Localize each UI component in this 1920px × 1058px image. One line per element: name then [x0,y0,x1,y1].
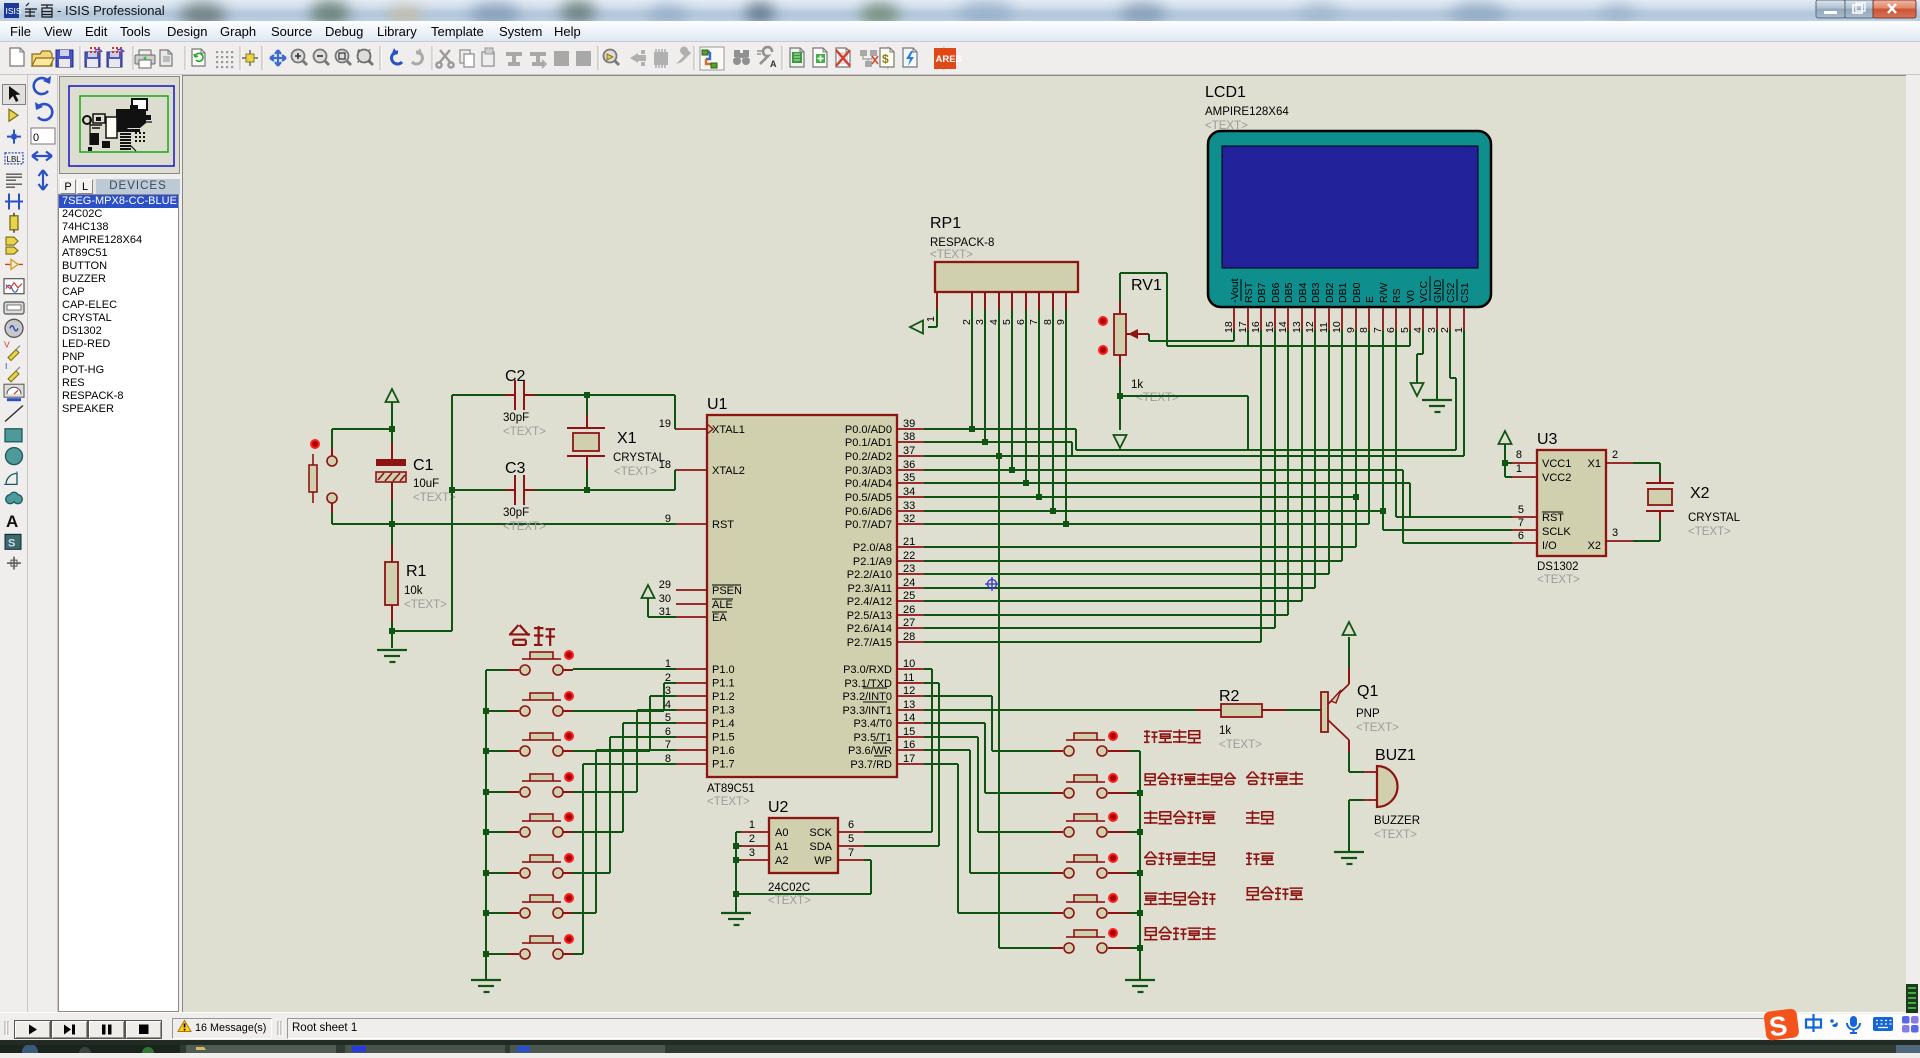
svg-text:<TEXT>: <TEXT> [1219,739,1262,751]
svg-text:SCK: SCK [809,827,832,839]
svg-text:P3.7/RD: P3.7/RD [850,759,892,771]
svg-text:1: 1 [749,819,755,831]
svg-text:U3: U3 [1537,431,1558,448]
svg-text:12: 12 [903,685,915,697]
svg-text:<TEXT>: <TEXT> [768,895,811,907]
svg-text:WP: WP [814,855,832,867]
svg-text:24: 24 [903,577,915,589]
svg-text:7: 7 [848,847,854,859]
svg-text:10: 10 [903,658,915,670]
svg-text:P1.7: P1.7 [712,759,735,771]
svg-text:30pF: 30pF [503,412,529,424]
svg-text:5: 5 [1001,319,1013,325]
svg-text:LCD1: LCD1 [1205,84,1246,101]
svg-text:C3: C3 [505,460,526,477]
svg-text:P0.5/AD5: P0.5/AD5 [845,492,892,504]
svg-text:P3.6/WR: P3.6/WR [848,745,892,757]
svg-text:33: 33 [903,500,915,512]
svg-text:DB6: DB6 [1270,282,1282,303]
svg-text:<TEXT>: <TEXT> [1136,392,1179,404]
svg-text:R2: R2 [1219,688,1240,705]
svg-text:<TEXT>: <TEXT> [1537,574,1580,586]
svg-text:28: 28 [903,631,915,643]
svg-text:6: 6 [1015,319,1027,325]
svg-text:6: 6 [848,819,854,831]
svg-text:P1.5: P1.5 [712,732,735,744]
svg-text:<TEXT>: <TEXT> [1688,526,1731,538]
svg-text:21: 21 [903,536,915,548]
svg-text:P2.3/A11: P2.3/A11 [848,583,892,595]
svg-text:RV1: RV1 [1131,277,1162,294]
svg-text:XTAL1: XTAL1 [712,424,745,436]
svg-text:P0.2/AD2: P0.2/AD2 [845,451,892,463]
svg-text:EA: EA [712,612,727,624]
svg-text:22: 22 [903,550,915,562]
svg-text:A2: A2 [775,855,788,867]
svg-text:27: 27 [903,617,915,629]
svg-text:4: 4 [988,319,1000,325]
svg-text:P0.6/AD6: P0.6/AD6 [845,506,892,518]
svg-text:P0.3/AD3: P0.3/AD3 [845,465,892,477]
svg-text:VCC2: VCC2 [1542,472,1571,484]
svg-text:-Vout: -Vout [1229,278,1241,303]
svg-text:2: 2 [961,319,973,325]
svg-text:9: 9 [1055,319,1067,325]
svg-text:30pF: 30pF [503,507,529,519]
svg-text:DB0: DB0 [1351,282,1363,303]
svg-text:2: 2 [1612,449,1618,461]
svg-text:CS1: CS1 [1459,282,1471,303]
svg-text:DB2: DB2 [1324,282,1336,303]
svg-text:P0.4/AD4: P0.4/AD4 [845,478,892,490]
svg-text:5: 5 [1518,504,1524,516]
svg-text:P3.0/RXD: P3.0/RXD [843,664,892,676]
svg-text:U1: U1 [707,396,728,413]
svg-text:P2.5/A13: P2.5/A13 [847,610,892,622]
svg-text:P1.2: P1.2 [712,691,735,703]
svg-text:R/W: R/W [1378,283,1390,304]
svg-text:DB5: DB5 [1283,282,1295,303]
svg-text:ALE: ALE [712,599,733,611]
svg-text:AMPIRE128X64: AMPIRE128X64 [1205,106,1289,118]
svg-text:24C02C: 24C02C [768,882,810,894]
svg-text:3: 3 [974,319,986,325]
svg-text:<TEXT>: <TEXT> [503,521,546,533]
svg-text:P2.4/A12: P2.4/A12 [847,596,892,608]
svg-text:39: 39 [903,418,915,430]
svg-text:X1: X1 [617,430,637,447]
svg-text:<TEXT>: <TEXT> [930,249,973,261]
svg-text:RST: RST [712,519,734,531]
svg-text:P1.4: P1.4 [712,718,735,730]
svg-text:P3.5/T1: P3.5/T1 [853,732,892,744]
svg-text:X2: X2 [1690,485,1710,502]
svg-text:VCC1: VCC1 [1542,458,1571,470]
svg-text:38: 38 [903,431,915,443]
svg-text:S: S [1767,1010,1789,1042]
svg-text:A1: A1 [775,841,788,853]
svg-text:Q1: Q1 [1357,683,1378,700]
svg-text:P3.2/INT0: P3.2/INT0 [842,691,892,703]
svg-text:DB3: DB3 [1310,282,1322,303]
svg-text:<TEXT>: <TEXT> [614,466,657,478]
svg-text:P2.1/A9: P2.1/A9 [853,556,892,568]
svg-text:7: 7 [1028,319,1040,325]
svg-text:C1: C1 [413,457,434,474]
svg-text:CS2: CS2 [1445,282,1457,303]
svg-text:RS: RS [1391,288,1403,303]
svg-text:PNP: PNP [1356,708,1380,720]
svg-text:DB1: DB1 [1337,282,1349,303]
svg-text:DB4: DB4 [1297,282,1309,303]
svg-text:16: 16 [903,739,915,751]
svg-text:36: 36 [903,459,915,471]
svg-text:X1: X1 [1588,458,1601,470]
svg-text:10k: 10k [404,585,423,597]
svg-text:26: 26 [903,604,915,616]
svg-text:RST: RST [1542,512,1564,524]
svg-text:P1.3: P1.3 [712,705,735,717]
svg-text:35: 35 [903,472,915,484]
svg-text:7: 7 [1518,517,1524,529]
svg-text:R1: R1 [406,563,427,580]
svg-text:17: 17 [903,753,915,765]
svg-text:P0.1/AD1: P0.1/AD1 [845,437,892,449]
svg-text:25: 25 [903,590,915,602]
svg-text:P2.7/A15: P2.7/A15 [847,637,892,649]
svg-text:DB7: DB7 [1256,282,1268,303]
svg-text:8: 8 [1042,319,1054,325]
svg-text:P0.7/AD7: P0.7/AD7 [845,519,892,531]
svg-text:AT89C51: AT89C51 [707,783,755,795]
svg-text:GND: GND [1432,279,1444,303]
svg-text:SCLK: SCLK [1542,526,1571,538]
svg-text:RP1: RP1 [930,215,961,232]
svg-text:P3.4/T0: P3.4/T0 [853,718,892,730]
svg-text:<TEXT>: <TEXT> [707,796,750,808]
svg-text:5: 5 [848,833,854,845]
svg-text:RST: RST [1243,281,1255,303]
svg-text:P2.2/A10: P2.2/A10 [847,569,892,581]
svg-text:P0.0/AD0: P0.0/AD0 [845,424,892,436]
svg-text:37: 37 [903,445,915,457]
svg-text:19: 19 [659,418,671,430]
svg-text:6: 6 [1518,530,1524,542]
svg-text:15: 15 [903,726,915,738]
svg-text:3: 3 [749,847,755,859]
svg-text:RESPACK-8: RESPACK-8 [930,237,994,249]
svg-text:10uF: 10uF [413,478,439,490]
svg-text:BUZ1: BUZ1 [1375,747,1416,764]
svg-text:8: 8 [1516,449,1522,461]
svg-text:U2: U2 [768,799,789,816]
svg-text:1k: 1k [1131,379,1143,391]
svg-text:30: 30 [659,593,671,605]
svg-text:P1.6: P1.6 [712,745,735,757]
svg-text:29: 29 [659,579,671,591]
svg-text:<TEXT>: <TEXT> [1205,120,1248,132]
svg-text:<TEXT>: <TEXT> [1356,722,1399,734]
svg-text:1: 1 [1516,463,1522,475]
svg-text:CRYSTAL: CRYSTAL [613,452,666,464]
svg-text:P1.1: P1.1 [712,678,735,690]
svg-text:3: 3 [1612,527,1618,539]
svg-text:X2: X2 [1588,540,1601,552]
svg-text:C2: C2 [505,368,526,385]
svg-text:1: 1 [925,316,937,322]
svg-text:V0: V0 [1405,290,1417,303]
svg-text:<TEXT>: <TEXT> [413,492,456,504]
svg-text:XTAL2: XTAL2 [712,465,745,477]
svg-text:SDA: SDA [809,841,832,853]
svg-text:P2.0/A8: P2.0/A8 [853,542,892,554]
svg-text:A0: A0 [775,827,788,839]
svg-text:P3.3/INT1: P3.3/INT1 [842,705,892,717]
svg-text:34: 34 [903,486,915,498]
svg-text:32: 32 [903,513,915,525]
svg-text:<TEXT>: <TEXT> [503,426,546,438]
svg-text:P2.6/A14: P2.6/A14 [847,623,892,635]
svg-text:E: E [1364,296,1376,303]
svg-text:14: 14 [903,712,915,724]
svg-text:<TEXT>: <TEXT> [404,599,447,611]
svg-text:P1.0: P1.0 [712,664,735,676]
svg-text:11: 11 [903,672,914,684]
svg-text:1k: 1k [1219,725,1231,737]
svg-text:23: 23 [903,563,915,575]
svg-text:PSEN: PSEN [712,585,742,597]
svg-text:I/O: I/O [1542,540,1557,552]
svg-text:CRYSTAL: CRYSTAL [1688,512,1741,524]
svg-text:2: 2 [749,833,755,845]
svg-text:DS1302: DS1302 [1537,561,1579,573]
svg-text:<TEXT>: <TEXT> [1374,829,1417,841]
svg-text:BUZZER: BUZZER [1374,815,1420,827]
svg-text:13: 13 [903,699,915,711]
svg-text:VCC: VCC [1418,280,1430,303]
